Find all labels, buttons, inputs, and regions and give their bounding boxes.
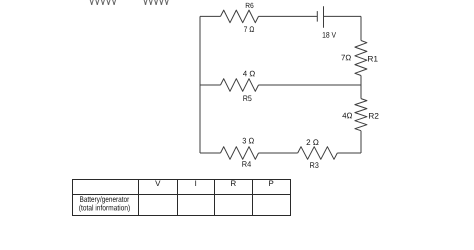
label R5 — [243, 96, 251, 102]
battery 18 V : long plate (positive) — [323, 6, 325, 28]
wire: right vertical, top corner to R1 — [360, 16, 362, 40]
table header I — [194, 181, 197, 187]
label R3 — [310, 162, 318, 168]
label R2 — [369, 113, 379, 119]
table header P — [269, 181, 273, 187]
label R6 — [246, 3, 254, 8]
resistor R3 — [298, 147, 338, 160]
resistor R6 — [221, 10, 259, 23]
label 4 Ω (R5 value) — [243, 71, 255, 77]
resistor R2 — [355, 99, 367, 131]
table: column divider 3 — [214, 180, 216, 216]
wire: bottom, R4 to R3 — [259, 152, 298, 154]
resistor R1 — [355, 41, 367, 76]
table: column divider 4 — [252, 180, 254, 216]
battery 18 V : short plate (negative) — [316, 11, 318, 22]
label 18 V (battery value) — [323, 32, 336, 38]
wire: middle branch, R5 to right vertical side — [259, 84, 362, 86]
wire: right vertical, R2 to bottom corner — [360, 131, 362, 153]
wire: top, R6 to battery — [259, 15, 318, 17]
partial resistor (cropped circuit above, right group) tip dots — [145, 3, 168, 5]
wire: bottom, left segment to R4 — [200, 152, 221, 154]
label 7Ω (R1 value) — [341, 55, 350, 61]
partial resistor (cropped circuit above, left group) tip dots — [91, 3, 115, 5]
label 3 Ω (R4 value) — [242, 138, 253, 144]
table row label: Battery/generator — [80, 196, 129, 203]
table: column divider 2 — [177, 180, 179, 216]
table row label: (total information) — [79, 205, 130, 212]
label R4 — [242, 161, 251, 167]
table header V — [155, 181, 160, 187]
partial resistor (cropped circuit above, right group) — [143, 0, 170, 5]
resistor R4 — [221, 147, 259, 160]
wire: left vertical side — [199, 16, 201, 153]
label R1 — [368, 56, 378, 62]
wire: top, battery to right corner — [324, 15, 362, 17]
wire: top, left segment to R6 — [200, 15, 221, 17]
wire: middle branch, left segment to R5 — [200, 84, 221, 86]
label 2 Ω (R3 value) — [307, 139, 319, 145]
table header R — [231, 181, 236, 187]
wire: bottom, R3 to right corner — [337, 152, 361, 154]
table: header row divider — [73, 194, 291, 196]
table: column divider 1 — [138, 180, 140, 216]
label 4Ω (R2 value) — [342, 113, 352, 119]
label 7 Ω (R6 value) — [244, 26, 254, 32]
partial resistor (cropped circuit above, left group) — [89, 0, 117, 5]
wire: right vertical, R1 to R2 (through middle-branch node) — [360, 76, 362, 99]
resistor R5 — [221, 79, 259, 92]
table: outer border — [73, 180, 291, 216]
